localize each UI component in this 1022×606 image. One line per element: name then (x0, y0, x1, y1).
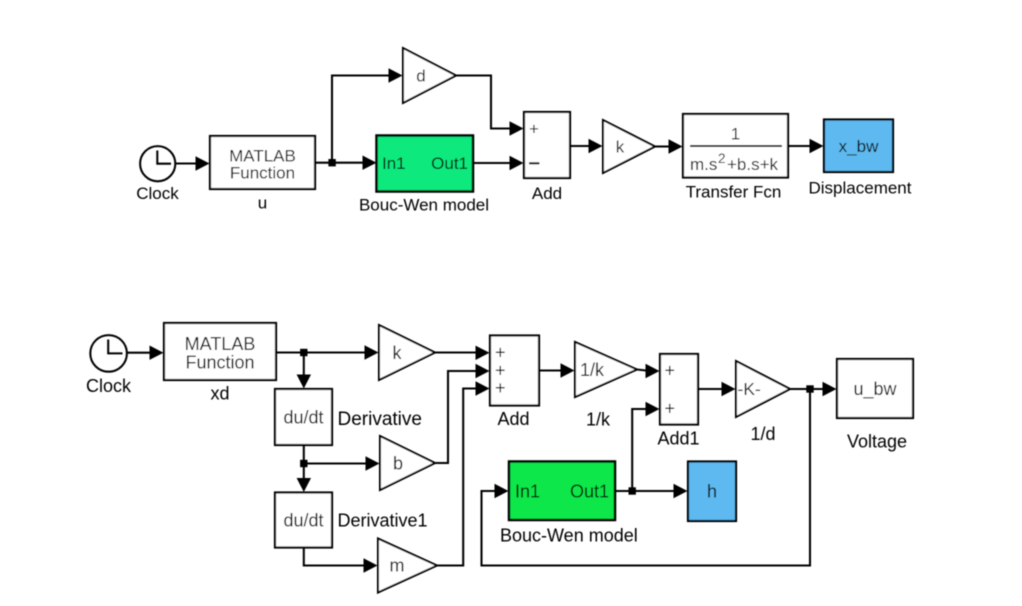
svg-text:u_bw: u_bw (853, 379, 897, 400)
svg-text:Out1: Out1 (431, 154, 468, 173)
svg-text:m: m (390, 556, 405, 576)
wire Out1 to Add - input (473, 156, 524, 170)
svg-text:In1: In1 (515, 482, 540, 502)
svg-text:du/dt: du/dt (283, 511, 323, 531)
svg-text:Out1: Out1 (570, 482, 609, 502)
svg-text:Displacement: Displacement (809, 179, 912, 198)
svg-text:Add1: Add1 (657, 429, 699, 449)
clock Clock (top) (136, 146, 179, 203)
wire Clock to MATLAB Function xd (127, 346, 164, 360)
block h (688, 462, 736, 522)
wire feedback from -K- output down around to Bouc-Wen In1 (482, 389, 811, 566)
svg-text:Bouc-Wen model: Bouc-Wen model (359, 196, 489, 215)
svg-text:h: h (707, 482, 717, 502)
block MATLAB Function u (210, 136, 315, 213)
svg-text:1: 1 (731, 125, 740, 144)
clock Clock (bottom) (86, 335, 132, 396)
wire gain m to Add input 3 (437, 381, 490, 565)
junction node at xd output (300, 349, 307, 356)
svg-text:k: k (616, 138, 625, 157)
junction node at Out1 (629, 487, 636, 494)
svg-text:Function: Function (185, 353, 254, 373)
wire junction down to Derivative1 (297, 464, 311, 493)
svg-text:Derivative1: Derivative1 (338, 511, 428, 531)
wire gain d to Add + input (456, 76, 524, 136)
svg-text:m.s: m.s (690, 155, 717, 174)
svg-text:d: d (416, 67, 425, 86)
sum Add (bottom) (490, 336, 539, 430)
subsystem Bouc-Wen model (bottom) (500, 462, 638, 546)
wire Transfer Fcn to Displacement (788, 139, 824, 153)
scope block u_bw Voltage (837, 359, 913, 452)
sum Add (top) (524, 112, 570, 203)
gain d (403, 48, 456, 103)
svg-text:+: + (495, 343, 506, 363)
block Derivative du/dt (275, 389, 422, 445)
wire Derivative output with branch (303, 445, 305, 464)
sum Add1 (657, 354, 699, 449)
wire junction up to Add1 input 2 (632, 402, 659, 491)
svg-text:In1: In1 (382, 154, 406, 173)
wire gain k to Add input 1 (435, 346, 490, 360)
svg-text:2: 2 (718, 151, 726, 166)
gain -K- 1/d (736, 361, 790, 444)
wire Clock to MATLAB Function (175, 156, 209, 170)
svg-text:Transfer Fcn: Transfer Fcn (686, 183, 782, 202)
svg-text:b: b (393, 454, 403, 474)
wire Derivative1 to gain m (304, 548, 378, 573)
block Transfer Fcn (683, 114, 788, 202)
svg-text:1/k: 1/k (586, 410, 611, 430)
gain m (378, 539, 437, 593)
wire Add1 to gain -K- (698, 382, 736, 396)
wire xd output to gain k (276, 345, 379, 359)
wire Add to gain k (570, 139, 603, 153)
svg-text:1/d: 1/d (750, 424, 775, 444)
svg-text:+b.s+k: +b.s+k (727, 155, 779, 174)
gain 1/k (575, 342, 637, 430)
svg-text:du/dt: du/dt (283, 408, 323, 428)
wire gain 1/k to Add1 input 1 (637, 364, 660, 378)
svg-text:Bouc-Wen model: Bouc-Wen model (500, 526, 638, 546)
svg-text:xd: xd (210, 384, 229, 404)
wire gain b to Add input 2 (435, 364, 490, 463)
gain k (top) (603, 120, 655, 173)
svg-text:+: + (495, 378, 506, 398)
gain k (bottom) (379, 325, 435, 380)
svg-text:x_bw: x_bw (839, 137, 879, 156)
svg-text:u: u (258, 194, 267, 213)
svg-text:Derivative: Derivative (338, 409, 422, 430)
wire gain k to Transfer Fcn (655, 139, 683, 153)
scope block x_bw Displacement (809, 120, 912, 198)
svg-text:Add: Add (497, 409, 529, 429)
svg-text:+: + (529, 120, 539, 139)
wire Out1 to h with junction (615, 484, 688, 498)
subsystem Bouc-Wen model (top) (359, 136, 489, 215)
wire MATLAB Function output with branch (315, 156, 377, 170)
svg-text:MATLAB: MATLAB (185, 334, 256, 354)
wire branch up to gain d (332, 68, 403, 162)
svg-text:Clock: Clock (86, 376, 132, 396)
wire branch down to Derivative (297, 353, 311, 389)
svg-text:Function: Function (230, 164, 295, 183)
junction node at -K- output (806, 385, 813, 392)
svg-text:+: + (665, 399, 676, 419)
wire junction to gain b (304, 456, 380, 470)
svg-text:Clock: Clock (136, 184, 179, 203)
junction node below Derivative (300, 460, 307, 467)
block Derivative1 du/dt (275, 493, 428, 548)
svg-text:Add: Add (532, 184, 562, 203)
svg-text:+: + (665, 361, 676, 381)
wire Add to gain 1/k (539, 363, 575, 377)
svg-text:Voltage: Voltage (847, 432, 907, 452)
svg-text:1/k: 1/k (580, 360, 605, 380)
gain b (380, 436, 435, 490)
block MATLAB Function xd (164, 323, 276, 404)
wire -K- to u_bw with junction (790, 382, 837, 396)
svg-text:-K-: -K- (738, 379, 762, 399)
svg-text:k: k (393, 343, 403, 363)
junction node at u output (328, 159, 335, 166)
